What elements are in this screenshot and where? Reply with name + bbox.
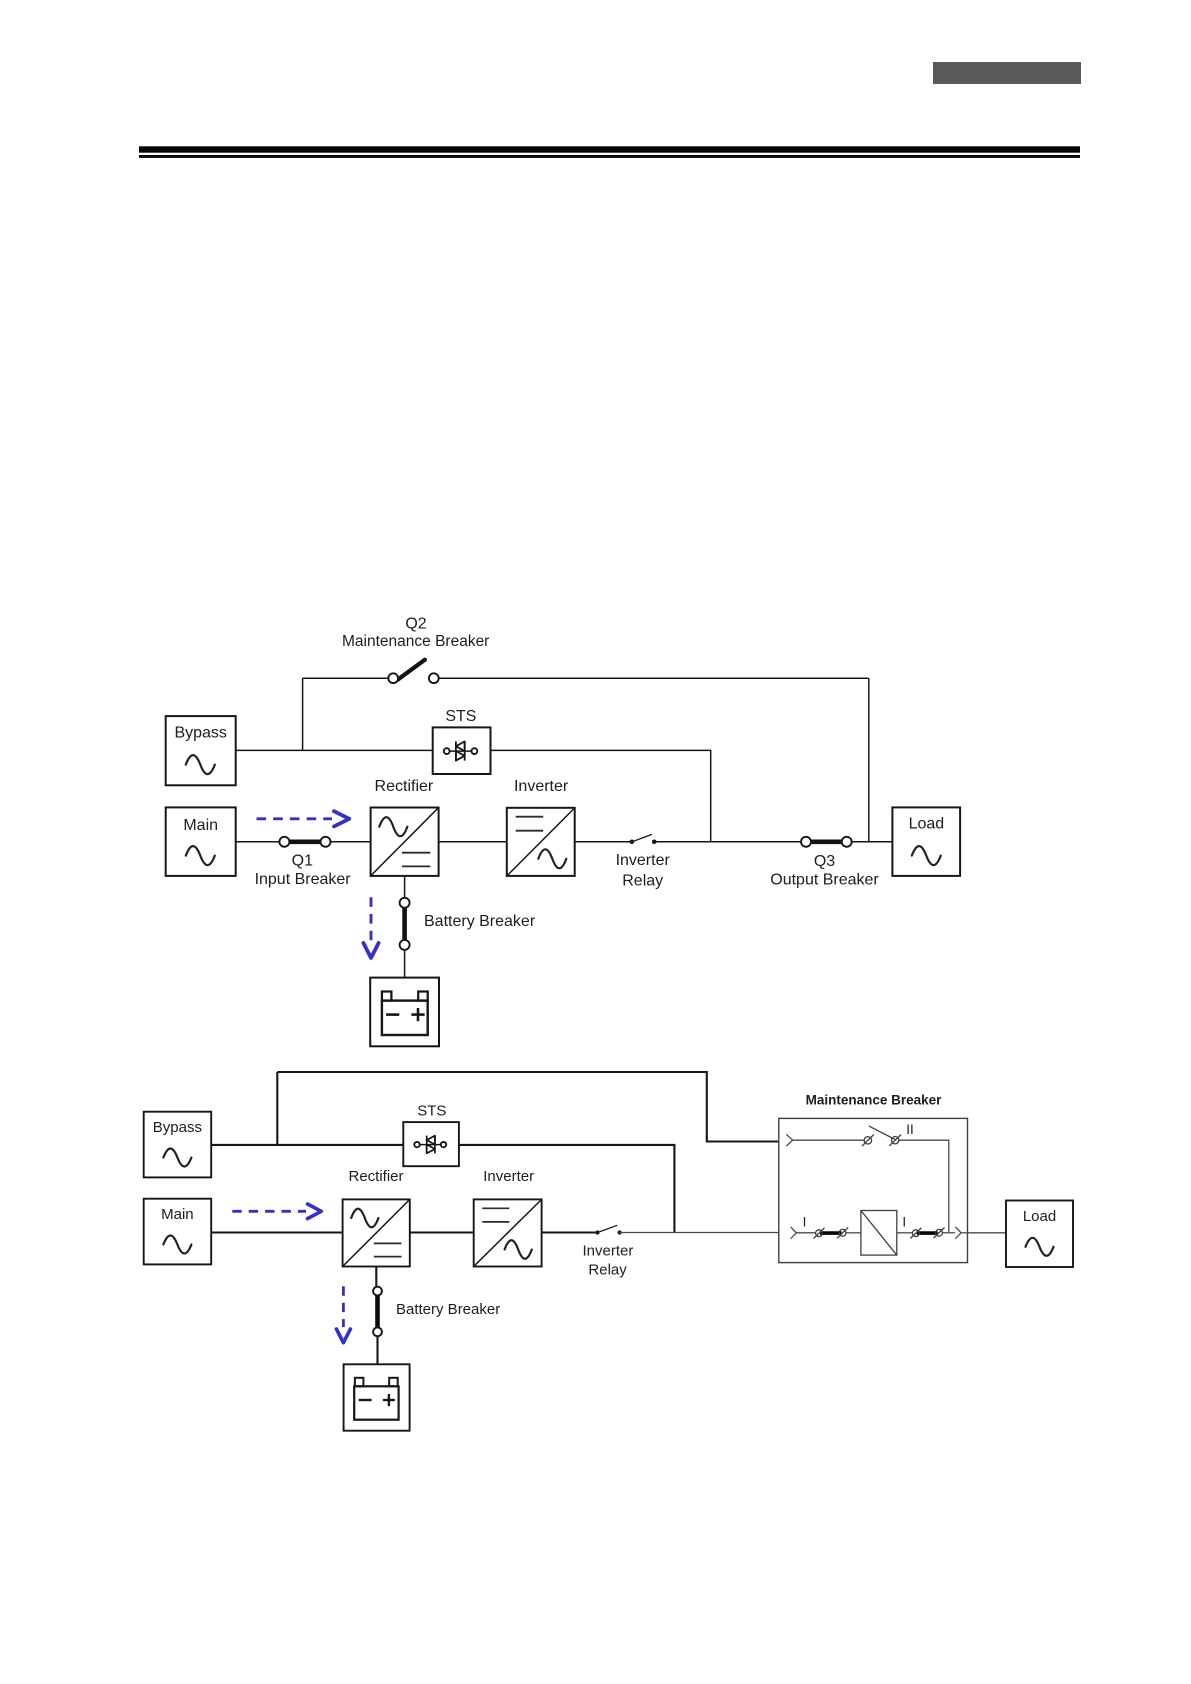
svg-text:Relay: Relay [622,872,663,889]
wire: Q1 to rectifier [331,841,371,843]
wire: relay to Q3 (with STS junction) [654,841,801,843]
wire: bypass riser up [276,1072,278,1145]
breaker II (open, circle-slash contacts) [862,1126,901,1146]
transformer T1 [861,1211,897,1256]
wire: bypass bus to STS [236,749,433,751]
wire: battery breaker to battery (2) [376,1336,378,1364]
source Bypass (2) [144,1112,212,1178]
svg-text:Input Breaker: Input Breaker [255,871,352,888]
wire: rectifier DC link down [404,876,406,898]
svg-text:Main: Main [183,817,218,834]
svg-text:Battery Breaker: Battery Breaker [424,913,536,930]
svg-text:Main: Main [161,1206,194,1223]
svg-text:Bypass: Bypass [153,1119,202,1136]
rectifier U3 [343,1199,410,1266]
svg-text:Output Breaker: Output Breaker [770,872,879,889]
wire: transformer to breaker I right [897,1232,913,1234]
wire: rectifier to inverter [439,841,507,843]
wire: STS output to main bus riser (2) [459,1145,675,1233]
wire: top row to riser, riser down [899,1140,949,1233]
load box (2) [1006,1201,1073,1268]
battery B1 [370,978,439,1047]
wire: top bypass bus to maintenance breaker [277,1072,779,1142]
node: output chevron [955,1227,961,1239]
svg-text:Maintenance Breaker: Maintenance Breaker [342,633,489,650]
STS static switch (2) [403,1122,459,1166]
breaker Q1 (closed) [279,837,330,847]
wire: Q2 bypass riser left [302,678,304,750]
source Bypass [166,716,236,785]
battery B2 [344,1364,410,1430]
breaker I right (closed, circle-slash + bar) [910,1228,944,1239]
flow arrow (blue dashed, vertical) (2) [336,1286,350,1342]
rectifier U1 [371,808,439,876]
svg-text:Battery Breaker: Battery Breaker [396,1301,500,1318]
wire: Main to rectifier (2) [211,1231,342,1233]
wire: relay to maintenance breaker box [620,1232,779,1234]
wire: inverter to relay [575,841,632,843]
wire: Q2 bus left segment [303,677,389,679]
wire: Main to Q1 [236,841,280,843]
svg-text:Maintenance Breaker: Maintenance Breaker [806,1093,943,1108]
wire: STS output to riser [491,750,711,841]
svg-text:Rectifier: Rectifier [348,1168,403,1185]
node: bypass input chevron [786,1134,792,1146]
wire: rectifier DC link down (2) [375,1267,377,1289]
svg-text:Inverter: Inverter [582,1242,633,1259]
flow arrow (blue dashed, horizontal) (2) [232,1204,321,1219]
flow arrow (blue dashed, horizontal) [257,811,350,826]
svg-text:Rectifier: Rectifier [375,778,434,795]
svg-text:Relay: Relay [588,1262,627,1279]
wire: top row to contact [793,1139,865,1141]
wire: Q2 riser right down to output bus [868,678,870,842]
svg-text:STS: STS [445,708,476,725]
breaker: battery breaker (closed) [400,898,410,950]
svg-text:Load: Load [909,816,945,833]
wire: maintenance box to load (2) [968,1232,1007,1234]
inverter U2 [507,808,575,876]
breaker: battery breaker (2) [373,1287,382,1337]
wire: Q3 to Load (with Q2 junction) [852,841,893,843]
svg-text:Q1: Q1 [292,853,313,870]
wire: output chevron to box edge [961,1232,967,1234]
wire: breaker to output chevron [942,1232,955,1234]
STS static switch [433,727,491,774]
load box [892,807,960,876]
svg-text:Bypass: Bypass [174,725,226,742]
svg-text:I: I [803,1215,807,1230]
breaker I left (closed, circle-slash + bar) [814,1228,849,1239]
source Main (2) [144,1199,212,1265]
svg-text:Inverter: Inverter [483,1168,534,1185]
svg-text:Load: Load [1023,1208,1056,1225]
svg-text:Q2: Q2 [405,615,426,632]
inverter U4 [474,1199,542,1266]
svg-text:Q3: Q3 [814,853,835,870]
wire: inverter to relay (2) [542,1231,598,1233]
wire: to isolation transformer [846,1232,861,1234]
source Main [166,807,236,876]
wire: battery breaker to battery [404,950,406,978]
relay: inverter relay (2) [595,1225,621,1234]
flow arrow (blue dashed, vertical) [363,897,378,958]
breaker Q2 (open) [388,660,438,683]
wire: bottom row lead-in [796,1232,816,1234]
svg-text:Inverter: Inverter [514,778,569,795]
maintenance breaker box (2) [779,1118,968,1262]
breaker Q3 (closed) [801,837,852,847]
node: main input chevron (bottom row) [791,1227,797,1239]
svg-text:Inverter: Inverter [616,852,671,869]
svg-text:STS: STS [417,1103,446,1120]
wire: Q2 bus right segment [439,677,869,679]
svg-text:I: I [902,1215,906,1230]
relay: inverter relay (open contact) [630,834,657,844]
svg-text:II: II [906,1122,914,1137]
wire: rectifier to inverter (2) [410,1231,474,1233]
wire: bypass bus to STS (2) [211,1144,403,1146]
